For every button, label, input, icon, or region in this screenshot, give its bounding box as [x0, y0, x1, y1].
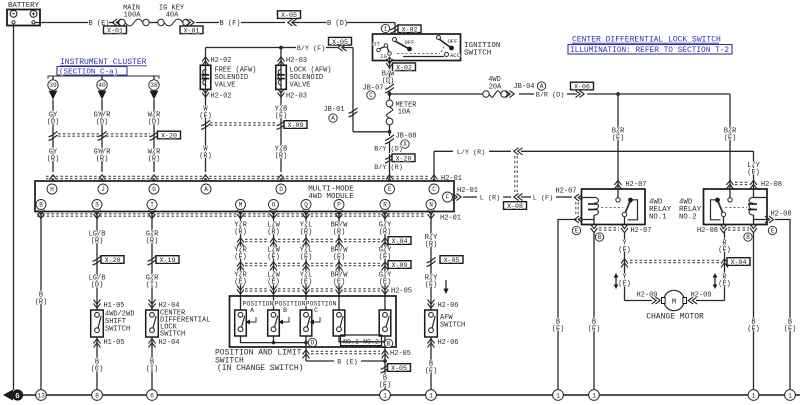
wire W/R [153, 100, 155, 173]
connector JB-04 [507, 93, 509, 95]
svg-text:NO.1: NO.1 [649, 214, 667, 222]
wire to junction 2 [389, 125, 391, 136]
module pin S [92, 200, 102, 210]
svg-text:39: 39 [49, 82, 57, 89]
svg-text:X-04: X-04 [731, 259, 747, 266]
svg-text:C: C [432, 186, 436, 193]
relay1 circled E [572, 226, 580, 234]
connector JB-01 [349, 108, 358, 117]
wire R/Y pin N [430, 212, 432, 311]
module bottom chevron [94, 210, 101, 219]
svg-text:(E): (E) [267, 279, 280, 287]
svg-text:(E): (E) [718, 281, 731, 289]
svg-text:13: 13 [37, 392, 45, 399]
svg-text:(F): (F) [425, 368, 438, 376]
svg-text:N: N [429, 202, 433, 209]
svg-text:B/Y (F): B/Y (F) [297, 45, 326, 53]
svg-text:(E): (E) [333, 279, 346, 287]
connector X-04 row [237, 238, 244, 247]
wire Y/L from module [305, 212, 307, 297]
cluster pin 40 [101, 76, 103, 80]
svg-text:H2-03: H2-03 [286, 93, 307, 101]
connector JB-08 [385, 135, 394, 144]
svg-text:T: T [150, 202, 154, 209]
position and limit switch box [230, 296, 397, 347]
wire R(E) [724, 232, 726, 301]
module bottom chevron [237, 210, 244, 219]
svg-text:(F): (F) [784, 326, 797, 334]
ground 6 [147, 390, 158, 401]
svg-text:(F): (F) [379, 382, 392, 390]
svg-text:H2-01: H2-01 [457, 187, 478, 195]
relay2 top terminal [728, 198, 732, 202]
wire Y(F) relay1 [624, 232, 626, 301]
connector X-01 left [112, 19, 121, 26]
relay2 coil wire to ground [753, 232, 755, 390]
svg-text:A: A [331, 115, 335, 122]
svg-text:(I): (I) [146, 366, 159, 374]
ignition switch contact 1 OFF [393, 38, 397, 42]
svg-text:H2-07: H2-07 [555, 188, 576, 196]
svg-text:H2-07: H2-07 [630, 227, 651, 235]
svg-text:H2-09: H2-09 [636, 292, 657, 300]
ground 1 f [785, 390, 796, 401]
svg-text:(E): (E) [379, 279, 392, 287]
svg-text:X-06: X-06 [574, 84, 590, 91]
svg-text:J: J [101, 186, 105, 193]
svg-text:(F): (F) [612, 135, 625, 143]
module bottom chevron [382, 210, 389, 219]
module bottom chevron [336, 210, 343, 219]
svg-text:(F): (F) [618, 247, 631, 255]
svg-text:A: A [250, 307, 254, 314]
svg-text:40: 40 [98, 82, 106, 89]
connector X-05 top [288, 19, 297, 26]
svg-text:(C): (C) [91, 366, 104, 374]
fuse MAIN 100A [119, 19, 125, 25]
module pin A [201, 184, 211, 194]
svg-text:(IN CHANGE SWITCH): (IN CHANGE SWITCH) [217, 364, 303, 373]
position switch 3 [305, 296, 307, 310]
svg-text:(R): (R) [148, 156, 161, 164]
svg-text:B: B [39, 202, 43, 209]
ignition switch contact 2 OFF ACC [437, 36, 441, 40]
svg-text:G: G [152, 186, 156, 193]
svg-text:SWITCH: SWITCH [440, 322, 465, 330]
junction dot lock valve tap [279, 46, 283, 50]
battery [7, 10, 40, 26]
svg-text:JB-08: JB-08 [395, 133, 416, 141]
svg-text:H2-05: H2-05 [390, 350, 411, 358]
afw switch [425, 310, 438, 337]
svg-text:C: C [314, 307, 318, 314]
svg-text:(R): (R) [300, 229, 313, 237]
junction dot ignition feed [389, 90, 391, 100]
connector X-02 bottom [389, 61, 391, 71]
motor wire left [625, 300, 653, 302]
connector H2-06 bottom [430, 337, 432, 390]
module chevron A [202, 175, 209, 184]
svg-text:ACC: ACC [450, 52, 461, 59]
svg-text:1: 1 [788, 392, 792, 399]
connector X-02 top [390, 24, 399, 33]
wire battery to ground [13, 24, 15, 390]
wire B/R (F) to relay2 [729, 94, 731, 189]
relay1 exit wire to ground [558, 220, 577, 390]
svg-text:(F): (F) [199, 113, 212, 121]
svg-text:(R): (R) [333, 229, 346, 237]
svg-text:(F): (F) [234, 254, 247, 262]
junction dot meter bottom [388, 130, 392, 134]
svg-text:M: M [672, 299, 676, 307]
svg-text:ILLUMINATION: REFER TO SECTION: ILLUMINATION: REFER TO SECTION T-2 [570, 47, 729, 55]
lock solenoid valve H2-03 top [280, 48, 282, 65]
svg-text:(R): (R) [425, 241, 438, 249]
svg-text:X-05: X-05 [281, 12, 297, 19]
connector X-06 [571, 82, 594, 90]
module H2-01 dashed top [46, 175, 430, 177]
svg-text:POSITION: POSITION [243, 301, 274, 308]
svg-text:H2-01: H2-01 [440, 215, 461, 223]
svg-text:POSITION: POSITION [275, 301, 306, 308]
relay1 H2-07 top [615, 180, 622, 189]
position switch 5 [384, 296, 386, 310]
lock solenoid valve [276, 65, 287, 89]
connector H1-05 top [94, 300, 101, 309]
wire B(R) pin B to ground [40, 212, 42, 390]
cluster pin 38 [153, 76, 155, 80]
position switch 1 [240, 296, 242, 310]
module pin O [269, 200, 279, 210]
relay2 circled B [744, 233, 752, 241]
svg-text:H2-02: H2-02 [210, 57, 231, 65]
ground 1 e [748, 390, 759, 401]
relay2 exit wire to ground [775, 220, 790, 390]
ignition switch dashed link [397, 53, 440, 55]
svg-text:(F): (F) [747, 326, 760, 334]
svg-text:(R): (R) [35, 299, 48, 307]
svg-text:1: 1 [556, 392, 560, 399]
svg-text:JB-04: JB-04 [513, 83, 534, 91]
svg-text:A: A [204, 186, 208, 193]
svg-text:O: O [272, 202, 276, 209]
svg-text:F: F [446, 194, 450, 201]
module pin B [36, 200, 46, 210]
wire battery B(E) [35, 22, 89, 24]
svg-text:OFF: OFF [447, 38, 457, 45]
connector H2-05 bottom row [305, 347, 307, 361]
ground 1 d [589, 390, 600, 401]
position switch bus NO12 [339, 336, 385, 342]
lock valve H2-03 bottom [280, 91, 282, 173]
svg-text:P: P [337, 202, 341, 209]
svg-text:(F): (F) [747, 169, 760, 177]
svg-text:100A: 100A [124, 12, 142, 20]
svg-text:A: A [540, 83, 544, 90]
svg-text:H2-08: H2-08 [770, 211, 791, 219]
relay2 right chevrons [765, 216, 774, 223]
4wd/2wd shift switch [91, 310, 104, 337]
module H2-01 dashed bottom [37, 213, 426, 215]
connector X-05 on B/Y [338, 44, 347, 51]
module pin J [98, 184, 108, 194]
wire G/R pin T [151, 212, 153, 311]
wire B/W (D) [389, 68, 391, 84]
connector X-07 inline LY [514, 148, 523, 155]
svg-text:(F): (F) [718, 247, 731, 255]
link box ILLUMINATION REFER TO SECTION T-2 [568, 45, 732, 55]
wire L/Y down to relay2 [753, 151, 755, 189]
svg-text:L (R): L (R) [480, 195, 500, 203]
svg-text:CHANGE MOTOR: CHANGE MOTOR [646, 313, 704, 322]
module chevron D [278, 175, 285, 184]
svg-text:8: 8 [95, 392, 99, 399]
svg-text:X-09: X-09 [392, 262, 408, 269]
svg-text:(R): (R) [267, 229, 280, 237]
module top chevrons row1 [50, 175, 57, 184]
circled B position bus [384, 339, 392, 347]
svg-text:(R): (R) [379, 229, 392, 237]
position switch 2 [273, 296, 275, 310]
module pin M [236, 200, 246, 210]
svg-text:(F): (F) [267, 254, 280, 262]
connector X-20 mid [385, 154, 394, 163]
svg-text:X-05: X-05 [332, 39, 348, 46]
relay2 coil [754, 197, 767, 199]
svg-text:(R): (R) [47, 156, 60, 164]
svg-text:SWITCH: SWITCH [464, 50, 491, 58]
module pin N [426, 200, 436, 210]
circled D position bus [308, 338, 316, 346]
svg-text:VALVE: VALVE [290, 82, 311, 90]
svg-text:B (F): B (F) [219, 20, 240, 28]
svg-text:(R): (R) [199, 153, 212, 161]
connector X-05 bottom [381, 364, 390, 373]
relay1 coil exit left [582, 219, 595, 221]
svg-text:(F): (F) [588, 326, 601, 334]
svg-text:H2-06: H2-06 [437, 339, 458, 347]
module pin T [147, 200, 157, 210]
cluster bracket [48, 76, 159, 79]
terminal 1 circled [381, 24, 389, 32]
svg-text:SWITCH: SWITCH [160, 331, 185, 339]
arrow down RY [445, 280, 447, 291]
ground 1 c [553, 390, 564, 401]
svg-text:(F): (F) [275, 113, 288, 121]
ground 13 [36, 390, 47, 401]
svg-text:B (D): B (D) [327, 20, 348, 28]
fuse IG KEY 40A [158, 19, 164, 25]
svg-text:(D): (D) [47, 119, 60, 127]
wire L(F) to relay1 [521, 196, 531, 198]
relay1 bottom chevrons [591, 224, 598, 233]
svg-text:38: 38 [150, 82, 158, 89]
svg-text:(R): (R) [275, 153, 288, 161]
no1 no2 box [341, 335, 382, 346]
svg-text:B: B [746, 234, 750, 241]
link box SECTION C-a [57, 67, 127, 76]
wire B(E) [306, 360, 334, 362]
module pin Q [301, 200, 311, 210]
wire B(F) [196, 22, 219, 24]
ground 1 b [426, 390, 437, 401]
svg-text:POSITION: POSITION [306, 301, 337, 308]
svg-text:1: 1 [592, 392, 596, 399]
svg-text:JB-01: JB-01 [323, 106, 344, 114]
svg-text:VALVE: VALVE [215, 82, 236, 90]
svg-text:OFF: OFF [404, 39, 414, 46]
relay1 left chevrons [574, 194, 583, 201]
svg-text:(E): (E) [300, 279, 313, 287]
wire L(R) from pin F [453, 194, 462, 201]
svg-text:R: R [383, 202, 387, 209]
module chevron E [389, 172, 391, 181]
svg-text:Q: Q [304, 202, 308, 209]
svg-text:(D): (D) [382, 78, 395, 86]
ground bus [17, 394, 800, 396]
svg-text:G: G [15, 393, 19, 401]
ground 1 a [380, 390, 391, 401]
module bottom chevron [428, 210, 435, 219]
relay2 coil exit right [754, 219, 767, 221]
connector X-09 valve row [277, 120, 286, 129]
svg-text:X-05: X-05 [391, 365, 407, 372]
svg-text:BATTERY: BATTERY [8, 2, 40, 10]
svg-text:X-20: X-20 [105, 257, 121, 264]
svg-text:H2-05: H2-05 [391, 288, 412, 296]
relay1 coil [582, 197, 595, 199]
module pin G [149, 184, 159, 194]
position switch 4 [338, 296, 340, 310]
ground 8 [92, 390, 103, 401]
4wd relay no.1 box [582, 189, 646, 225]
connector X-04 motor row [621, 259, 628, 268]
svg-text:X-20: X-20 [161, 133, 177, 140]
svg-text:H2-08: H2-08 [697, 227, 718, 235]
svg-text:D: D [311, 340, 315, 347]
wire between fuses [149, 22, 158, 24]
connector X-01 right [186, 19, 195, 26]
svg-text:6: 6 [150, 392, 154, 399]
svg-text:X-02: X-02 [396, 64, 412, 71]
svg-text:X-19: X-19 [160, 257, 176, 264]
svg-text:L/Y (R): L/Y (R) [457, 149, 486, 157]
svg-text:H1-05: H1-05 [103, 302, 124, 310]
wire B(D) to ignition switch [293, 22, 328, 24]
svg-text:X-01: X-01 [107, 27, 123, 34]
svg-text:(F): (F) [724, 135, 737, 143]
svg-text:(E): (E) [234, 279, 247, 287]
wire B/R (D) [519, 93, 534, 95]
wire LG/B pin S [96, 212, 98, 311]
svg-text:1: 1 [384, 26, 388, 33]
svg-text:B/Y (R): B/Y (R) [374, 164, 403, 172]
module bottom chevron [270, 210, 277, 219]
free valve H2-02 bottom [205, 91, 207, 173]
svg-text:X-09: X-09 [288, 122, 304, 129]
connector X-20 on S wire [93, 256, 102, 265]
svg-text:B/R (D): B/R (D) [536, 92, 565, 100]
svg-text:(SECTION C-a): (SECTION C-a) [59, 69, 118, 77]
svg-text:NO.2: NO.2 [679, 214, 697, 222]
ignition switch box [373, 34, 461, 61]
svg-text:1: 1 [383, 392, 387, 399]
svg-text:E: E [771, 228, 775, 235]
svg-text:B/Y (D): B/Y (D) [374, 146, 403, 154]
wire B/R (F) to relay1 [617, 94, 619, 189]
relay2 mech link dashed [725, 207, 747, 209]
wire L/Y horizontal [434, 150, 453, 152]
arrow updown left [615, 275, 617, 287]
connector H2-05 row [237, 286, 244, 295]
relay1 switch [622, 212, 626, 216]
svg-text:SWITCH: SWITCH [105, 326, 130, 334]
relay2 bottom chevrons [720, 224, 727, 233]
svg-text:(D): (D) [148, 119, 161, 127]
connector X-19 on T wire [148, 256, 157, 265]
svg-text:H2-04: H2-04 [158, 339, 179, 347]
module pin E [385, 184, 395, 194]
connector inline valve row [201, 120, 210, 129]
svg-text:4WD MODULE: 4WD MODULE [308, 193, 354, 201]
svg-text:H2-06: H2-06 [437, 302, 458, 310]
change motor [664, 290, 684, 310]
module bottom chevron [38, 210, 45, 219]
module pin H [47, 184, 57, 194]
svg-text:(F): (F) [552, 326, 565, 334]
relay1 top terminal [616, 198, 620, 202]
module bottom chevron [149, 210, 156, 219]
connector H2-04 top [149, 300, 156, 309]
relay2 circled E [768, 226, 776, 234]
svg-text:H2-09: H2-09 [690, 292, 711, 300]
free solenoid valve [200, 65, 211, 89]
svg-text:1: 1 [429, 392, 433, 399]
module pin F [443, 192, 453, 202]
connector H2-06 top [428, 300, 435, 309]
module pin D [276, 184, 286, 194]
svg-text:40A: 40A [166, 12, 179, 20]
svg-text:E: E [388, 186, 392, 193]
svg-text:H2-03: H2-03 [286, 57, 307, 65]
svg-text:(F): (F) [300, 254, 313, 262]
svg-text:M: M [239, 202, 243, 209]
svg-text:B (E): B (E) [337, 359, 357, 367]
cluster pin 39 [52, 76, 54, 80]
svg-text:L (F): L (F) [533, 195, 553, 203]
arrow updown right [714, 275, 716, 287]
svg-text:(D): (D) [91, 282, 104, 290]
svg-text:B: B [283, 307, 287, 314]
svg-text:H2-08: H2-08 [761, 181, 782, 189]
svg-text:(R): (R) [234, 229, 247, 237]
svg-text:X-08: X-08 [507, 203, 523, 210]
svg-text:(I): (I) [146, 282, 159, 290]
svg-text:(E): (E) [618, 281, 631, 289]
svg-text:C: C [369, 92, 373, 99]
connector H2-04 bottom [151, 337, 153, 390]
svg-text:X-20: X-20 [396, 155, 412, 162]
wire GY/R [101, 100, 103, 173]
svg-text:E: E [575, 228, 579, 235]
wire B/Y (D) label [389, 142, 391, 153]
junction dot B/R [616, 92, 620, 96]
svg-text:S: S [95, 202, 99, 209]
wire BR/W from module [338, 212, 340, 297]
svg-text:D: D [279, 186, 283, 193]
position switch bus ABC [241, 336, 307, 343]
wire G/Y from module [384, 212, 386, 297]
